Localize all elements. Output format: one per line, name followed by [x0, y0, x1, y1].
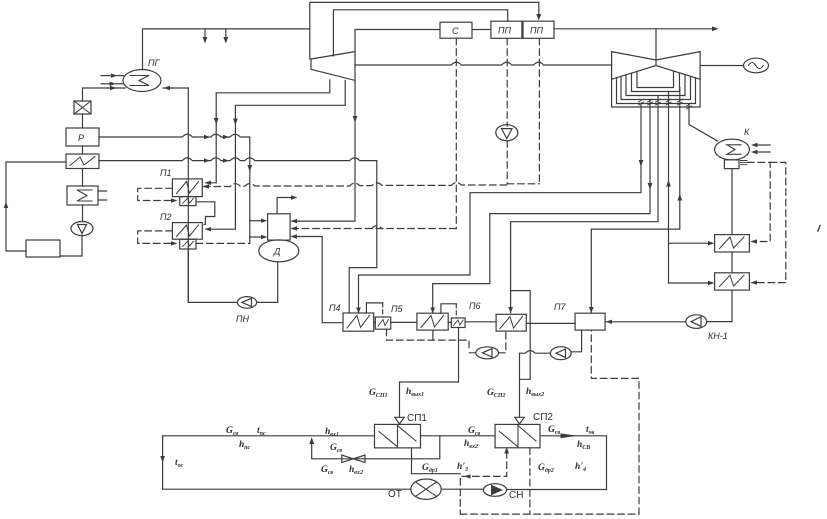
- condensate pump KN-1: [686, 315, 707, 329]
- svg-text:ОТ: ОТ: [388, 489, 402, 500]
- svg-text:ПН: ПН: [236, 314, 250, 324]
- arrow down on HP exhaust: [353, 116, 358, 123]
- LP extraction manifold nested U 2: [621, 77, 691, 100]
- makeup water box: [26, 240, 60, 257]
- svg-text:СН: СН: [509, 490, 523, 501]
- wire LP extraction B to P5: [433, 100, 650, 314]
- flow arrows on R line: [204, 135, 229, 139]
- wire live steam line 1 to reheater PP2: [310, 2, 539, 59]
- svg-text:СП1: СП1: [407, 413, 427, 424]
- ejector cooler E2: [715, 273, 750, 290]
- deaerator vent with arrow: [277, 198, 293, 214]
- svg-text:КН-1: КН-1: [708, 331, 728, 341]
- fuel arrow 2 into PG: [101, 83, 111, 85]
- stub lines right of cooler: [98, 191, 107, 200]
- turbine LP cylinder double flow: [612, 52, 701, 107]
- dashed hotwell to E2 drain: [752, 162, 786, 282]
- condenser hotwell: [724, 160, 739, 169]
- arrow into PP2 top: [536, 14, 541, 20]
- dashed PP drains header to P1 (with crossing bumps): [204, 182, 540, 186]
- feed pump PN: [237, 297, 256, 309]
- wire R outlet to deaerator (with crossing bumps): [99, 134, 250, 243]
- drain cooler P1 small box: [180, 197, 196, 206]
- flow arrows on bundle: [639, 160, 644, 167]
- expander R box: [66, 128, 99, 146]
- wire live steam line 2 to reheater PP1: [333, 10, 507, 56]
- reheater PP2 box: [523, 21, 554, 38]
- wire feedwater from P1 string into PG: [163, 87, 188, 89]
- wire: [82, 114, 84, 128]
- fuel arrow 1 into PG: [101, 75, 113, 77]
- svg-text:ПГ: ПГ: [148, 58, 161, 68]
- LP extraction manifold nested U 4: [632, 73, 680, 91]
- wire P1 drain cascade to P2: [196, 202, 215, 225]
- wire shaft line HP to LP with crossing bumps: [355, 62, 612, 65]
- stray mark: [818, 226, 820, 232]
- svg-text:СП2: СП2: [533, 412, 553, 423]
- drain cooler P4 small box: [375, 317, 390, 329]
- arrow down on R line vertical: [247, 165, 252, 172]
- dashed drain loop P2 left: [138, 231, 173, 244]
- drain cooler P5 small box: [451, 318, 465, 328]
- svg-text:С: С: [452, 26, 459, 36]
- dashed reheater PP2 drain: [538, 38, 540, 184]
- wire steam generator outlet pipe: [143, 29, 310, 70]
- svg-text:П5: П5: [391, 304, 404, 314]
- steam generator PG ellipse: [123, 70, 161, 92]
- arrow up on loop: [4, 202, 9, 209]
- bypass valve: [342, 455, 365, 462]
- deaerator column box: [268, 214, 291, 240]
- cooling water arrows: [757, 144, 770, 146]
- wire HP extraction 1 to P1: [206, 80, 330, 183]
- heater P2 box: [172, 223, 202, 240]
- wire between E1 and E2: [731, 252, 733, 273]
- svg-text:К: К: [744, 127, 750, 137]
- wire HP exhaust down to deaerator: [292, 80, 355, 221]
- dashed reheater PP1 drain with pump: [506, 38, 508, 126]
- wire branch to right with arrow: [656, 28, 715, 30]
- LP extraction manifold nested U 1: [617, 78, 696, 104]
- arrow stub 1 on steam line: [204, 29, 206, 39]
- P4 top loop: [366, 303, 382, 313]
- LP extraction manifold nested U 3: [626, 75, 685, 96]
- drain cooler P2 small box: [180, 239, 196, 249]
- wire LP exhaust to condenser diagonal: [689, 104, 718, 142]
- drain pump Pa: [476, 347, 499, 359]
- svg-text:ПП: ПП: [530, 26, 544, 36]
- svg-text:Д: Д: [273, 247, 281, 257]
- wire SP1 steam supply from P5 drain cooler: [400, 328, 459, 418]
- dashed separator C drain to deaerator: [455, 38, 457, 228]
- wire: [60, 236, 82, 257]
- arrow down on extraction 2: [233, 119, 238, 126]
- wire network supply line: [163, 436, 607, 490]
- wire network return left leg: [163, 436, 411, 489]
- wire feedwater from blowdown column into PG: [83, 88, 126, 101]
- wire LP extraction C to P6: [511, 96, 658, 313]
- wire PP2 to LP turbine inlet: [554, 28, 656, 30]
- wire heat exchanger outlet to P4 (with crossing bumps): [99, 158, 377, 313]
- heat exchanger box (zigzag): [66, 154, 99, 169]
- svg-text:П1: П1: [160, 168, 172, 178]
- wire LP extraction A to P4: [359, 104, 642, 314]
- drain pump Pb: [550, 347, 571, 360]
- svg-text:П4: П4: [329, 303, 341, 313]
- wire LP extraction D to P7: [591, 88, 680, 313]
- P5 top loop: [441, 304, 456, 313]
- condenser K: [715, 139, 750, 160]
- wire branch into deaerator left upper: [250, 220, 263, 222]
- tick marks on extraction bundle: [639, 99, 692, 109]
- separator C box: [440, 22, 472, 38]
- PG internal heating symbol: [130, 76, 149, 86]
- wire SP1 bypass: [312, 436, 440, 459]
- svg-text:П6: П6: [469, 301, 481, 311]
- wire feedwater string P2-P1 vertical: [187, 88, 189, 301]
- cooler box with sigma: [67, 186, 98, 205]
- LP extraction manifold nested U 5: [637, 72, 674, 88]
- dashed SP2 right drain: [529, 448, 531, 514]
- wire main condensate P4 to deaerator: [292, 237, 343, 323]
- dashed drain loop P1 left: [138, 188, 173, 200]
- dashed Pa connections: [469, 331, 506, 353]
- wire return loop left: [6, 162, 66, 251]
- deaerator D tank ellipse: [259, 240, 299, 262]
- wire P7 drain to pump Pb: [571, 330, 581, 352]
- arrow right after SP2: [561, 433, 578, 438]
- arrow stub 2 on steam line: [225, 29, 227, 39]
- wire branch into deaerator left lower: [250, 236, 263, 238]
- wire: [82, 205, 84, 222]
- wire LP inlet drop: [655, 29, 657, 60]
- wire C branch to SP2 heater: [511, 291, 531, 417]
- turbine HP cylinder: [311, 52, 355, 81]
- generator G: [744, 58, 769, 73]
- heater P4 box: [343, 313, 374, 331]
- dashed hotwell to E1 drain: [748, 162, 771, 241]
- wire: [82, 169, 84, 187]
- wire HP exhaust riser to separator line: [355, 30, 440, 52]
- svg-text:П7: П7: [554, 302, 567, 312]
- heater P5 box: [417, 313, 448, 330]
- wire condensate connectors P4 string: [374, 322, 575, 324]
- dashed P4 drain to drain pump circuit: [387, 329, 470, 350]
- wire deaerator down to feed pump PN: [257, 262, 278, 303]
- wire OT to SN pump: [441, 488, 483, 490]
- wire KN-1 pump to P7: [605, 321, 686, 323]
- heater P1 box: [172, 179, 202, 197]
- svg-text:П2: П2: [160, 212, 172, 222]
- network heater SP2 box: [495, 424, 540, 447]
- heater P7 box: [575, 313, 605, 330]
- wire hotwell to ejector cooler E1: [731, 169, 733, 235]
- flow arrows on HX line: [204, 158, 229, 162]
- P5 drain stub: [432, 330, 434, 340]
- wire SN to right loop: [507, 489, 607, 491]
- valve box with X: [74, 101, 91, 114]
- wire HP extraction 2 to P2: [206, 80, 345, 229]
- dashed bottom loop to P7: [460, 330, 639, 514]
- wire shaft LP to generator: [700, 65, 743, 67]
- ejector cooler E1: [715, 235, 750, 252]
- wire PN outlet to P2 bottom: [188, 249, 237, 302]
- wire SP1 drain: [412, 448, 461, 474]
- wire Pb discharge to SP2 line (bump over): [520, 351, 551, 380]
- svg-text:ПП: ПП: [498, 26, 512, 36]
- heat consumer OT circle: [411, 479, 441, 499]
- wire KN-1 suction from ejector coolers: [707, 290, 732, 322]
- network heater SP1 box: [375, 424, 421, 448]
- svg-text:Р: Р: [78, 133, 84, 143]
- heater P6 box: [496, 314, 526, 331]
- wire LP extraction E to ejector coolers: [669, 92, 711, 284]
- wire: [82, 146, 84, 154]
- dashed SP2 drain riser: [460, 452, 506, 515]
- arrow down on extraction 1: [214, 118, 219, 125]
- network pump SN: [483, 484, 506, 497]
- pump (blowdown) circle with triangle: [71, 222, 93, 236]
- wire C to PP1: [472, 29, 491, 31]
- reheater PP1 box: [491, 21, 522, 38]
- wire P2 drain cooler outlet dashed to deaerator feed column: [196, 242, 250, 244]
